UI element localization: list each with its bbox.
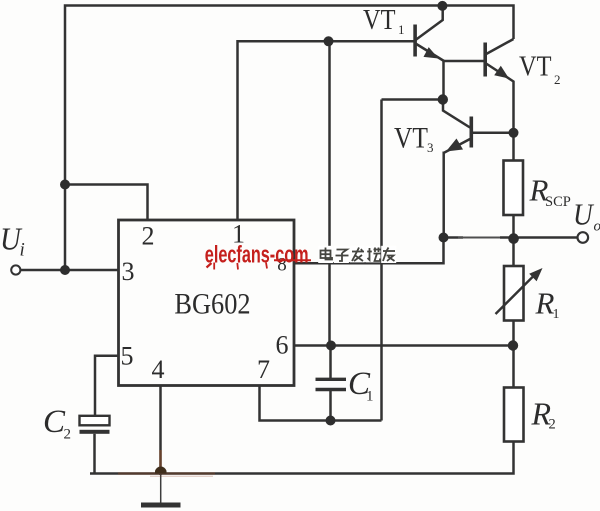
svg-text:BG602: BG602 [174,288,250,321]
svg-text:2: 2 [549,417,556,433]
svg-text:R: R [535,286,555,321]
svg-text:5: 5 [121,342,134,371]
svg-text:SCP: SCP [545,194,571,210]
svg-text:1: 1 [398,22,405,37]
svg-text:1: 1 [366,389,374,405]
svg-text:2: 2 [64,427,72,443]
svg-text:VT: VT [363,3,395,35]
svg-text:elecfans-com: elecfans-com [205,241,309,268]
svg-text:i: i [20,240,25,261]
svg-text:VT: VT [519,51,551,82]
svg-text:7: 7 [257,355,270,384]
svg-text:2: 2 [142,222,155,251]
svg-text:3: 3 [122,257,135,286]
svg-text:4: 4 [152,355,165,384]
svg-text:3: 3 [427,140,434,155]
svg-text:2: 2 [554,72,561,87]
svg-text:6: 6 [276,331,289,360]
svg-text:1: 1 [553,307,560,322]
svg-text:o: o [594,219,600,235]
svg-text:VT: VT [394,122,428,155]
svg-text:U: U [573,198,594,232]
